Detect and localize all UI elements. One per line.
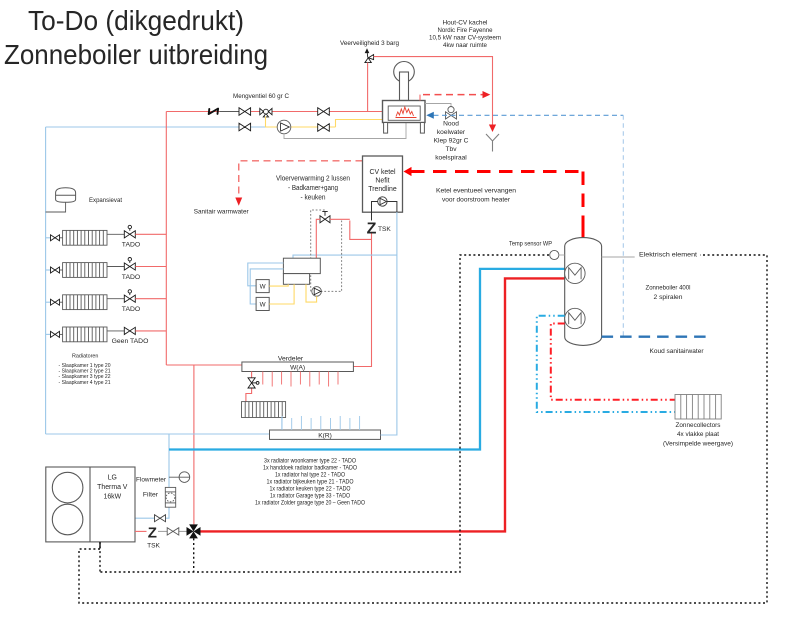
wire thick red dashed from tank <box>411 170 583 173</box>
wire light blue CV return down <box>381 212 397 435</box>
wire gray radiator R2 to valve <box>107 266 124 268</box>
svg-text:Vloerverwarming 2 lussen: Vloerverwarming 2 lussen <box>276 176 350 183</box>
tank coil 2 <box>565 308 585 328</box>
floor loop box W2 <box>256 297 269 310</box>
floor loop box W1 <box>256 280 269 293</box>
radiator R2 <box>63 263 107 278</box>
wire gray radiator R1 to valve <box>107 233 124 235</box>
radiator R5 badkamer <box>242 402 286 418</box>
svg-text:W(A): W(A) <box>290 365 305 372</box>
wire blue to radiator R4 <box>46 333 51 335</box>
wire gray heat pump valve run <box>158 530 188 532</box>
wire red radiator R2 to riser <box>135 266 166 268</box>
wire red radiator R3 to riser <box>135 298 166 300</box>
svg-text:TADO: TADO <box>122 242 140 249</box>
CV ketel box U1 <box>363 156 403 212</box>
wire red radiator R1 to riser <box>135 233 166 235</box>
tank coil 1 <box>565 263 585 283</box>
svg-text:Nood: Nood <box>443 121 459 128</box>
verzamelaar K(R) box <box>270 430 381 439</box>
wire red radiator R4 to riser <box>135 330 166 332</box>
filter symbol <box>165 487 175 507</box>
wire red feed to verdeler <box>166 364 242 366</box>
wire blue to radiator R3 <box>46 301 51 303</box>
svg-text:K(R): K(R) <box>318 433 332 440</box>
wire red branch to heat pump <box>193 365 195 524</box>
pump P1 <box>277 120 291 134</box>
svg-text:1x handdoek radiator badkamer: 1x handdoek radiator badkamer - TADO <box>263 465 357 472</box>
wire dark CV return in <box>387 202 397 213</box>
wire yellow loop 1 return <box>269 284 288 286</box>
svg-text:koelwater: koelwater <box>437 129 466 136</box>
expansion vessel <box>56 188 76 203</box>
arrow red overheat <box>483 91 491 98</box>
svg-text:2 spiralen: 2 spiralen <box>654 294 683 301</box>
svg-text:Expansievat: Expansievat <box>89 197 122 204</box>
svg-text:Filter: Filter <box>143 492 159 499</box>
svg-text:1x radiator Zolder garage type: 1x radiator Zolder garage type 20 – Geen… <box>255 500 365 507</box>
wire yellow mixed line <box>266 117 383 128</box>
wire red mengventiel supply line <box>166 111 382 113</box>
wire red top run to drain <box>374 57 493 125</box>
arrow sanitair down <box>235 198 242 206</box>
svg-text:To-Do (dikgedrukt): To-Do (dikgedrukt) <box>28 5 244 36</box>
wire light blue floor manifold feed <box>293 255 397 258</box>
svg-text:W: W <box>260 302 266 309</box>
valve radiator R4 left <box>51 331 63 337</box>
valve radiator R2 left <box>51 267 63 273</box>
svg-text:W: W <box>260 284 266 291</box>
wire red dashed sanitair warmwater <box>239 161 363 198</box>
svg-text:Koud sanitairwater: Koud sanitairwater <box>650 348 705 355</box>
valve badkamer radiator <box>248 378 259 388</box>
svg-text:1x radiator hal type 22 - TADO: 1x radiator hal type 22 - TADO <box>275 472 345 479</box>
wire light blue return to K(R) <box>46 433 270 435</box>
heat pump LG box <box>46 467 135 542</box>
wire blue to radiator R2 <box>46 269 51 271</box>
flowmeter symbol <box>179 472 190 483</box>
svg-text:1x radiator bijkeuken type 21: 1x radiator bijkeuken type 21 - TADO <box>267 479 354 486</box>
svg-text:TADO: TADO <box>122 274 140 281</box>
wire red left riser <box>165 112 167 366</box>
svg-text:Geen TADO: Geen TADO <box>112 338 149 345</box>
wire red heat pump out <box>135 530 147 532</box>
wire light blue loop 2 <box>250 269 283 304</box>
arrow thick red dashed into CV ketel <box>404 167 412 176</box>
temp sensor WP <box>550 250 559 259</box>
wire black dotted sensor to controller <box>100 255 549 572</box>
valve V2 <box>318 108 330 116</box>
svg-text:Sanitair warmwater: Sanitair warmwater <box>194 209 250 216</box>
svg-text:voor doorstroom heater: voor doorstroom heater <box>442 197 511 204</box>
wire yellow manifold to pump <box>306 284 317 302</box>
svg-text:Klep 92gr C: Klep 92gr C <box>434 138 469 145</box>
arrow blue into stove <box>426 112 434 119</box>
wire gray elektrisch element <box>602 256 635 258</box>
wire gray radiator R4 to valve <box>107 330 124 332</box>
wire thick cyan heat pump to tank coil <box>169 269 565 450</box>
svg-text:Flowmeter: Flowmeter <box>136 476 167 483</box>
svg-text:Mengventiel 60 gr C: Mengventiel 60 gr C <box>233 93 289 100</box>
svg-text:1x radiator keuken type 22 - T: 1x radiator keuken type 22 - TADO <box>270 486 351 493</box>
wire red dashed overheat run <box>423 94 483 96</box>
svg-text:10,5 kW naar CV-systeem: 10,5 kW naar CV-systeem <box>429 35 501 42</box>
wire gray dotted thermostat left <box>311 210 326 291</box>
svg-text:Verdeler: Verdeler <box>278 355 304 362</box>
valve radiator R3 left <box>51 299 63 305</box>
svg-text:16kW: 16kW <box>103 494 121 501</box>
radiator R4 <box>63 327 107 342</box>
valve heat pump hot line <box>167 528 179 535</box>
relief valve V-safety <box>365 49 374 62</box>
wire light blue dashed cold feed down <box>622 115 624 336</box>
wire light blue loop 1 <box>248 263 284 286</box>
svg-text:Therma V: Therma V <box>97 484 128 491</box>
svg-text:koelspiraal: koelspiraal <box>435 155 467 162</box>
svg-text:Radiatoren: Radiatoren <box>72 354 98 360</box>
wire expansion vessel connector <box>46 202 66 212</box>
wire light blue K(R) right connector <box>381 434 397 436</box>
wire light blue radiator return top <box>46 126 266 128</box>
check valve TSK symbol on supply <box>209 109 218 115</box>
wire gray dotted thermostat right <box>321 221 341 292</box>
TADO valve radiator R1 <box>124 225 135 238</box>
svg-text:Tbv: Tbv <box>446 146 458 153</box>
wire thick red tank coil to cross valve <box>200 278 565 531</box>
wire dark heat pump controller stub <box>99 542 101 548</box>
svg-text:Nordic Fire Fayenne: Nordic Fire Fayenne <box>438 27 493 34</box>
verdeler W(A) ticks <box>263 372 338 387</box>
wire blue to radiator R1 <box>46 237 51 239</box>
wire light blue branch to heat pump <box>135 434 169 518</box>
wire light blue badkamer radiator drop <box>281 418 283 431</box>
valve radiator R4 right <box>124 327 135 334</box>
zonnecollector panel <box>675 395 721 420</box>
svg-text:Elektrisch element: Elektrisch element <box>639 252 697 259</box>
svg-text:TSK: TSK <box>147 543 160 550</box>
svg-text:4x vlakke plaat: 4x vlakke plaat <box>677 431 719 438</box>
TADO valve radiator R2 <box>124 258 135 271</box>
wire red dashdot solar hot <box>551 324 675 400</box>
arrow red down to drain <box>489 125 496 133</box>
svg-text:Trendline: Trendline <box>368 186 397 193</box>
wire red stove overheat stub <box>419 95 421 101</box>
pump P3 floor heating <box>312 287 322 297</box>
svg-text:LG: LG <box>108 475 117 482</box>
TADO valve radiator R3 <box>124 290 135 303</box>
emergency cooling valve <box>446 107 457 120</box>
cross valve 3-way motorized <box>187 524 201 538</box>
svg-text:- keuken: - keuken <box>301 195 326 202</box>
wire black dotted outer loop <box>79 255 767 603</box>
stove flames <box>396 107 417 118</box>
valve V1 <box>239 108 251 116</box>
svg-text:Nefit: Nefit <box>375 178 389 185</box>
wire black dotted heat pump drop <box>99 542 101 572</box>
floor manifold upper <box>283 258 320 273</box>
svg-text:4kw naar ruimte: 4kw naar ruimte <box>443 42 487 49</box>
valve heat pump cold line <box>155 515 166 522</box>
wire red valve to manifold <box>316 219 320 258</box>
mixing valve 3-way <box>260 108 272 117</box>
svg-text:CV ketel: CV ketel <box>369 169 396 176</box>
drain Y symbol <box>486 134 499 152</box>
svg-text:Hout-CV kachel: Hout-CV kachel <box>443 20 488 27</box>
wire red verdeler to badkamer radiator <box>246 372 252 402</box>
valve radiator R1 left <box>51 235 63 241</box>
valve V3 <box>239 123 251 131</box>
radiator R3 <box>63 295 107 310</box>
svg-text:TADO: TADO <box>122 306 140 313</box>
wire cyan dashdot solar cold <box>537 316 675 412</box>
wire blue dashed koud sanitairwater <box>602 336 710 338</box>
wire black dotted valve branch <box>193 538 195 572</box>
wire yellow loop 2 return <box>269 284 294 304</box>
pump P2 in CV ketel <box>378 197 387 206</box>
svg-text:- Slaapkamer 4 type 21: - Slaapkamer 4 type 21 <box>59 380 111 386</box>
svg-text:Veerveiligheid 3 barg: Veerveiligheid 3 barg <box>340 40 399 47</box>
svg-text:Z: Z <box>148 525 157 542</box>
wire red valve to CV return <box>330 218 350 220</box>
floor manifold lower <box>283 274 309 285</box>
svg-text:Ketel eventueel vervangen: Ketel eventueel vervangen <box>436 188 516 195</box>
wire gray to emergency valve <box>425 104 451 107</box>
valve V4 <box>318 124 330 132</box>
svg-text:Zonneboiler 400l: Zonneboiler 400l <box>646 285 691 292</box>
zonneboiler tank <box>565 238 602 346</box>
wire gray after check valve <box>220 111 240 113</box>
svg-text:(Versimpelde weergave): (Versimpelde weergave) <box>663 441 733 448</box>
wire gray radiator R3 to valve <box>107 298 124 300</box>
wire red relief valve drop <box>367 63 369 112</box>
svg-text:Zonnecollectors: Zonnecollectors <box>676 422 721 429</box>
svg-text:TSK: TSK <box>378 226 391 233</box>
svg-text:- Badkamer+gang: - Badkamer+gang <box>288 185 338 192</box>
svg-text:1x radiator Garage type 33 - T: 1x radiator Garage type 33 - TADO <box>270 493 350 500</box>
wood stove body <box>383 62 426 134</box>
wire red CV supply down to verdeler <box>353 234 371 367</box>
wire red floor-heating return join <box>350 221 372 240</box>
verdeler W(A) box <box>242 362 354 372</box>
wire gray stove return <box>284 123 406 139</box>
svg-text:3x radiator woonkamer type 22: 3x radiator woonkamer type 22 - TADO <box>264 458 356 465</box>
verzamelaar K(R) ticks <box>282 416 360 430</box>
svg-text:Temp sensor WP: Temp sensor WP <box>509 241 552 248</box>
wire dark CV supply out <box>372 202 378 221</box>
wire blue dashed cold water to stove <box>434 114 624 116</box>
wire light blue left riser <box>45 127 47 434</box>
floor heating mixing valve <box>320 212 330 223</box>
radiator R1 <box>63 230 107 245</box>
svg-text:Zonneboiler uitbreiding: Zonneboiler uitbreiding <box>4 39 268 70</box>
